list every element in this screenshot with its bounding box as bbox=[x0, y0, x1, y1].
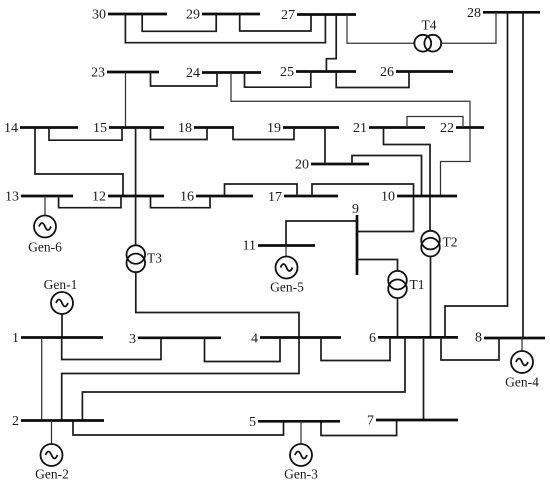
wire 14-15 bbox=[49, 128, 122, 141]
wire 15-18 bbox=[151, 128, 208, 140]
svg-text:Gen-5: Gen-5 bbox=[270, 280, 304, 295]
svg-text:11: 11 bbox=[243, 239, 256, 254]
wire 1-2 bbox=[41, 338, 43, 421]
wire 8-28 bbox=[522, 12, 524, 338]
wire T2-6 bbox=[430, 257, 432, 338]
svg-text:10: 10 bbox=[381, 190, 395, 205]
svg-text:Gen-4: Gen-4 bbox=[505, 375, 539, 390]
wire 6-7 bbox=[423, 337, 425, 420]
wire 23-15 bbox=[125, 72, 127, 128]
bus 17 bbox=[268, 190, 338, 205]
wire 5-7 bbox=[321, 420, 397, 436]
wire 12-13 bbox=[59, 196, 121, 208]
wire 12-14 bbox=[35, 128, 123, 197]
wire T1-6 bbox=[397, 298, 399, 337]
wire 24-25 bbox=[245, 72, 311, 88]
bus 21 bbox=[353, 121, 425, 136]
wire 12-16 bbox=[151, 196, 211, 208]
bus 8 bbox=[475, 331, 545, 346]
wire 23-24 bbox=[151, 72, 218, 86]
bus 27 bbox=[281, 8, 356, 23]
bus 5 bbox=[249, 415, 340, 430]
wire 9-T1 bbox=[357, 260, 398, 272]
wire 24-22 bbox=[231, 73, 470, 128]
bus 30 bbox=[92, 8, 167, 23]
bus 19 bbox=[267, 121, 339, 136]
bus 7 bbox=[367, 414, 458, 429]
svg-text:Gen-3: Gen-3 bbox=[284, 467, 318, 482]
svg-text:4: 4 bbox=[251, 332, 258, 347]
wire 29-27 bbox=[240, 14, 311, 31]
generator Gen-5 bbox=[270, 246, 304, 295]
svg-text:9: 9 bbox=[352, 202, 359, 217]
wire 2-5 bbox=[73, 421, 284, 436]
bus 28 bbox=[467, 6, 540, 21]
wire 1-3 bbox=[62, 338, 161, 360]
bus 2 bbox=[12, 414, 104, 429]
wire 3-4 bbox=[205, 338, 281, 362]
wire 17-10 bbox=[312, 184, 414, 196]
svg-text:T4: T4 bbox=[422, 18, 437, 33]
svg-text:29: 29 bbox=[186, 8, 200, 23]
bus 23 bbox=[91, 66, 159, 81]
svg-text:Gen-1: Gen-1 bbox=[44, 277, 78, 292]
bus 15 bbox=[93, 121, 164, 136]
bus 24 bbox=[186, 66, 261, 81]
svg-text:14: 14 bbox=[4, 121, 18, 136]
wire 20-10 bbox=[352, 156, 422, 197]
bus 11 bbox=[243, 239, 315, 254]
generator Gen-6 bbox=[28, 196, 62, 255]
bus 22 bbox=[440, 121, 484, 136]
transformer T2 bbox=[421, 231, 457, 257]
wire 27-T4 bbox=[347, 15, 414, 44]
bus 6 bbox=[369, 331, 458, 346]
wire 6-28 bbox=[445, 12, 508, 337]
wire T4-28 bbox=[441, 12, 496, 43]
svg-text:20: 20 bbox=[295, 158, 309, 173]
svg-text:8: 8 bbox=[475, 331, 482, 346]
wire 9-11 bbox=[286, 221, 357, 246]
wire 25-26 bbox=[336, 72, 409, 88]
bus 1 bbox=[12, 331, 103, 346]
svg-text:17: 17 bbox=[268, 190, 282, 205]
wire 2-4 bbox=[62, 338, 299, 421]
wire T3-4 bbox=[136, 272, 299, 337]
bus 12 bbox=[92, 190, 164, 205]
svg-text:6: 6 bbox=[369, 331, 376, 346]
wire 2-6 bbox=[82, 337, 405, 420]
bus 13 bbox=[5, 190, 73, 205]
wire 10-T2 bbox=[429, 196, 431, 231]
svg-text:T3: T3 bbox=[147, 251, 162, 266]
generator Gen-4 bbox=[505, 338, 539, 390]
wire 9-10 bbox=[357, 196, 414, 232]
bus 4 bbox=[251, 332, 341, 347]
generator Gen-2 bbox=[35, 421, 69, 482]
wire 6-8 bbox=[441, 337, 499, 360]
generator Gen-3 bbox=[284, 421, 318, 481]
bus 9 bbox=[352, 202, 359, 275]
transformer T3 bbox=[127, 245, 163, 272]
wire 12-T3 bbox=[135, 196, 137, 245]
svg-text:25: 25 bbox=[280, 65, 294, 80]
svg-text:T1: T1 bbox=[410, 277, 425, 292]
wire 15-12 bbox=[135, 128, 137, 197]
wire 30-29 bbox=[142, 14, 216, 31]
bus 26 bbox=[380, 65, 453, 80]
wire 21-10 bbox=[384, 128, 431, 197]
svg-text:1: 1 bbox=[12, 331, 19, 346]
bus 18 bbox=[178, 121, 234, 136]
svg-text:21: 21 bbox=[353, 121, 367, 136]
svg-text:18: 18 bbox=[178, 121, 192, 136]
svg-text:13: 13 bbox=[5, 190, 19, 205]
wire 16-17 bbox=[225, 184, 298, 196]
bus 14 bbox=[4, 121, 78, 136]
wire 4-6 bbox=[321, 337, 390, 360]
svg-text:T2: T2 bbox=[443, 235, 458, 250]
svg-text:15: 15 bbox=[93, 121, 107, 136]
bus 16 bbox=[180, 190, 253, 205]
svg-text:5: 5 bbox=[249, 415, 256, 430]
svg-text:Gen-6: Gen-6 bbox=[28, 240, 62, 255]
svg-text:19: 19 bbox=[267, 121, 281, 136]
svg-text:2: 2 bbox=[12, 414, 19, 429]
bus 29 bbox=[186, 8, 260, 23]
svg-text:22: 22 bbox=[440, 121, 454, 136]
generator Gen-1 bbox=[44, 277, 78, 338]
wire 27-25 bbox=[326, 15, 336, 72]
svg-text:Gen-2: Gen-2 bbox=[35, 467, 69, 482]
svg-text:3: 3 bbox=[129, 332, 136, 347]
transformer T1 bbox=[388, 271, 424, 298]
svg-text:24: 24 bbox=[186, 66, 200, 81]
svg-text:28: 28 bbox=[467, 6, 481, 21]
svg-text:16: 16 bbox=[180, 190, 194, 205]
bus 3 bbox=[129, 332, 221, 347]
svg-text:26: 26 bbox=[380, 65, 394, 80]
svg-text:27: 27 bbox=[281, 8, 295, 23]
bus 25 bbox=[280, 65, 356, 80]
svg-text:12: 12 bbox=[92, 190, 106, 205]
wire 30-27 bbox=[125, 14, 325, 43]
svg-text:30: 30 bbox=[92, 8, 106, 23]
wire 22-10 bbox=[441, 128, 471, 197]
svg-text:7: 7 bbox=[367, 414, 374, 429]
svg-text:23: 23 bbox=[91, 66, 105, 81]
transformer T4 bbox=[414, 18, 441, 52]
wire 18-19 bbox=[233, 128, 294, 140]
wire 21-22 bbox=[407, 117, 463, 128]
bus 10 bbox=[381, 190, 457, 205]
bus 20 bbox=[295, 158, 369, 173]
wire 19-20 bbox=[324, 128, 326, 165]
